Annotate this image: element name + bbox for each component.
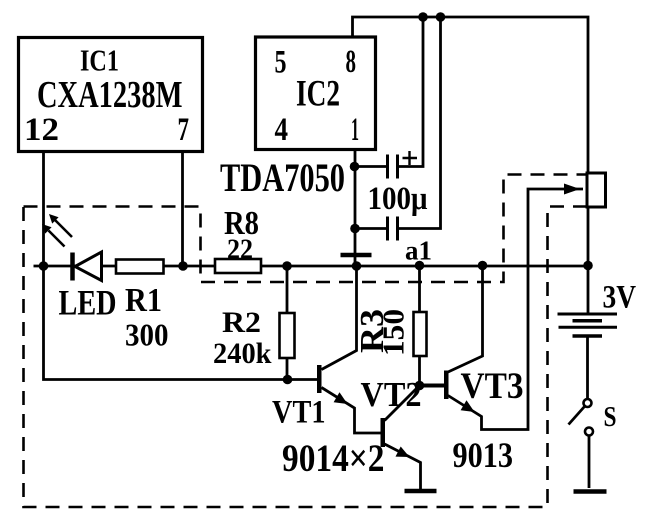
- svg-text:5: 5: [275, 45, 287, 81]
- svg-text:150: 150: [376, 309, 411, 356]
- svg-text:VT3: VT3: [461, 366, 524, 407]
- svg-text:R2: R2: [222, 306, 261, 339]
- svg-text:IC2: IC2: [296, 74, 340, 115]
- svg-text:TDA7050: TDA7050: [220, 155, 345, 200]
- svg-text:4: 4: [275, 112, 289, 148]
- svg-text:VT1: VT1: [272, 395, 326, 431]
- svg-text:CXA1238M: CXA1238M: [37, 74, 183, 116]
- svg-text:IC1: IC1: [80, 43, 119, 78]
- svg-text:9014×2: 9014×2: [282, 437, 385, 480]
- svg-text:LED: LED: [59, 283, 117, 323]
- svg-text:8: 8: [346, 44, 357, 80]
- svg-text:R1: R1: [125, 282, 162, 319]
- svg-text:300: 300: [125, 317, 169, 353]
- svg-text:3V: 3V: [603, 280, 637, 316]
- svg-text:9013: 9013: [453, 435, 514, 475]
- svg-text:VT2: VT2: [361, 375, 422, 414]
- svg-text:12: 12: [24, 112, 59, 148]
- svg-text:240k: 240k: [213, 338, 272, 370]
- svg-text:S: S: [604, 402, 617, 433]
- svg-text:a1: a1: [405, 236, 432, 266]
- svg-text:1: 1: [351, 112, 359, 148]
- svg-text:7: 7: [178, 112, 190, 148]
- svg-text:22: 22: [227, 234, 253, 266]
- svg-text:100μ: 100μ: [368, 181, 428, 217]
